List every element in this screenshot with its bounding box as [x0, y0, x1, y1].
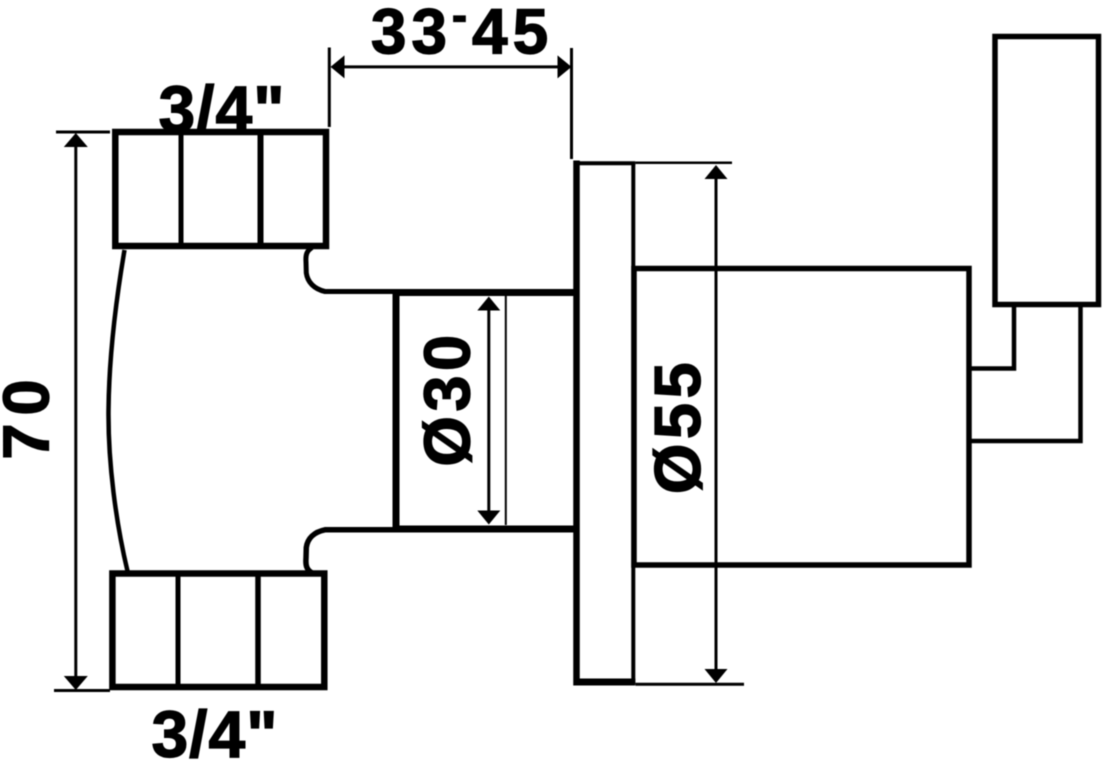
dimension D55: line and arrows	[715, 172, 718, 677]
upper body step curve + top edge to flange	[306, 248, 577, 292]
svg-text:3/4": 3/4"	[158, 72, 285, 146]
left tapered body arc	[108, 250, 127, 571]
handle collar (outer step)	[969, 305, 1081, 441]
main valve body	[634, 269, 969, 566]
top 3/4" threaded fitting	[115, 132, 326, 246]
bottom 3/4" threaded fitting	[112, 574, 324, 688]
svg-text:Ø30: Ø30	[411, 330, 484, 466]
dimension 70: line and arrows	[74, 140, 77, 682]
dimension 33-45: line and arrows	[334, 65, 568, 68]
dimension 33-45: extension lines	[328, 48, 331, 128]
svg-text:33-45: 33-45	[371, 0, 553, 68]
handle stem (inner step)	[969, 305, 1014, 369]
svg-text:3/4": 3/4"	[151, 697, 278, 762]
dimension D30: line and arrows	[487, 305, 490, 516]
lower body step curve + bottom edge to flange	[306, 530, 577, 573]
svg-text:Ø55: Ø55	[641, 358, 714, 494]
dimension D55: extension lines	[636, 161, 733, 164]
dimension 70: extension lines	[56, 131, 110, 134]
wall cylinder (D30)	[396, 291, 577, 530]
svg-text:70: 70	[0, 371, 63, 459]
flange plate (D55)	[574, 161, 636, 686]
handle lever	[995, 37, 1099, 305]
